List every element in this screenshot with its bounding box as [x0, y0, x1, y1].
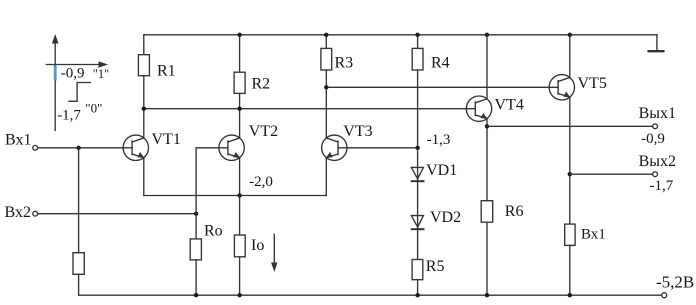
svg-text:R2: R2: [252, 75, 271, 92]
horizontal axis: [46, 64, 102, 66]
svg-text:Io: Io: [251, 237, 264, 254]
step waveform: [69, 83, 90, 102]
emitter bus with -2,0 node: [144, 195, 326, 197]
svg-text:VT5: VT5: [578, 75, 607, 92]
node dot Bx1 branch: [76, 146, 80, 150]
svg-text:-0,9: -0,9: [61, 66, 85, 82]
svg-text:R5: R5: [426, 258, 445, 275]
svg-text:-1,7: -1,7: [57, 107, 81, 123]
wire VT5 emitter down: [569, 97, 571, 224]
wire R4 bottom through VD1/VD2 to R5, node -1,3: [417, 70, 419, 260]
resistor R6: [481, 201, 493, 223]
svg-text:Вых1: Вых1: [639, 105, 676, 122]
svg-text:Ro: Ro: [204, 223, 223, 240]
output wire Byx1: [487, 125, 653, 127]
svg-text:VD1: VD1: [426, 162, 457, 179]
svg-text:Вх1: Вх1: [581, 226, 606, 242]
resistor Bx1: [565, 224, 575, 245]
transistor VT5: [569, 35, 571, 78]
resistor R1: [143, 35, 145, 55]
input Bx1 terminal: [33, 145, 38, 150]
node dot R1 line: [142, 107, 146, 111]
transistor VT4: [486, 35, 488, 99]
svg-text:VT2: VT2: [249, 123, 278, 140]
pulldown resistor (unlabelled): [73, 253, 84, 275]
wire VT3 emitter down to bus: [325, 158, 327, 196]
wire VT1 emitter down: [143, 158, 145, 196]
svg-text:VT1: VT1: [152, 131, 181, 148]
svg-text:"0": "0": [85, 100, 102, 115]
node dot Bx2 junction: [194, 212, 198, 216]
wire VT4 emitter to output node: [486, 119, 488, 201]
resistor R2: [239, 35, 241, 72]
transistor VT1: [123, 135, 148, 160]
transistor VT3 (mirrored): [322, 135, 347, 160]
svg-text:R4: R4: [431, 54, 450, 71]
top supply rail: [144, 34, 657, 36]
svg-text:VT4: VT4: [495, 97, 524, 114]
input waveform graph axes: [46, 34, 108, 130]
diode VD2: [411, 216, 423, 227]
wire VT3 base to -1,3 node: [347, 147, 418, 149]
wire R2 bottom to VT2 collector: [239, 93, 241, 137]
R3 node to VT5 base wire: [326, 86, 549, 88]
current source resistor Io: [239, 196, 241, 236]
node dot R2 line: [237, 107, 241, 111]
resistor R3: [325, 35, 327, 49]
output wire Byx2: [570, 173, 653, 175]
svg-text:-1,3: -1,3: [427, 132, 451, 148]
svg-text:Вх1: Вх1: [5, 132, 31, 149]
wire R1 bottom to VT1 collector: [143, 76, 145, 138]
svg-text:-5,2В: -5,2В: [656, 272, 694, 291]
node dots on top rail: [237, 33, 241, 37]
Io current arrow: [273, 234, 275, 266]
svg-text:-0,9: -0,9: [641, 131, 665, 147]
ground: [656, 35, 658, 50]
svg-text:Вх2: Вх2: [5, 204, 31, 221]
resistor R4: [417, 35, 419, 49]
diode VD1: [411, 167, 423, 178]
resistor Ro: [190, 239, 201, 260]
wire Bx1 to VT1 base: [38, 147, 124, 149]
svg-text:R3: R3: [335, 54, 354, 71]
wire R3 bottom to VT3 collector: [325, 70, 327, 138]
wire Bx2 to junction: [38, 213, 197, 215]
bottom supply rail: [79, 294, 662, 296]
transistor VT2: [219, 135, 244, 160]
wire Bx1 node down to pulldown resistor: [78, 148, 80, 253]
wire junction up to VT2 base: [196, 148, 219, 214]
collector bus node line (VT1/VT2 collectors to VT4 base): [144, 108, 467, 110]
node dot R3 bottom: [324, 85, 328, 89]
svg-text:R1: R1: [157, 62, 176, 79]
svg-text:-1,7: -1,7: [650, 178, 674, 194]
svg-text:VD2: VD2: [430, 209, 461, 226]
svg-text:"1": "1": [93, 67, 109, 81]
svg-text:R6: R6: [505, 203, 524, 220]
svg-text:VT3: VT3: [343, 123, 372, 140]
wire junction down to Ro: [195, 214, 197, 239]
terminal -5,2V: [662, 293, 667, 298]
resistor R5: [412, 260, 423, 280]
vertical axis: [54, 40, 56, 130]
wire VT2 emitter down to bus: [239, 158, 241, 196]
svg-text:-2,0: -2,0: [249, 174, 273, 190]
svg-text:Вых2: Вых2: [639, 153, 676, 170]
blue level mark: [54, 65, 57, 80]
input Bx2 terminal: [33, 211, 38, 216]
